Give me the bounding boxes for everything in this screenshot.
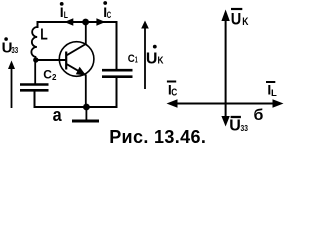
svg-text:33: 33: [11, 46, 18, 55]
svg-text:2: 2: [52, 73, 57, 82]
svg-text:б: б: [254, 107, 264, 124]
svg-text:U: U: [229, 118, 241, 135]
svg-text:L: L: [271, 88, 277, 99]
svg-text:K: K: [158, 56, 165, 67]
svg-text:33: 33: [241, 123, 249, 133]
svg-text:C: C: [43, 67, 52, 81]
svg-text:L: L: [64, 10, 68, 21]
svg-text:Рис. 13.46.: Рис. 13.46.: [109, 127, 206, 147]
svg-text:1: 1: [135, 55, 138, 64]
svg-text:а: а: [53, 105, 63, 125]
svg-text:K: K: [242, 16, 248, 28]
svg-text:U: U: [231, 9, 242, 28]
svg-text:U: U: [146, 51, 158, 68]
svg-text:C: C: [171, 87, 177, 98]
svg-text:C: C: [107, 10, 111, 21]
svg-text:C: C: [128, 53, 135, 65]
svg-text:L: L: [40, 26, 48, 43]
